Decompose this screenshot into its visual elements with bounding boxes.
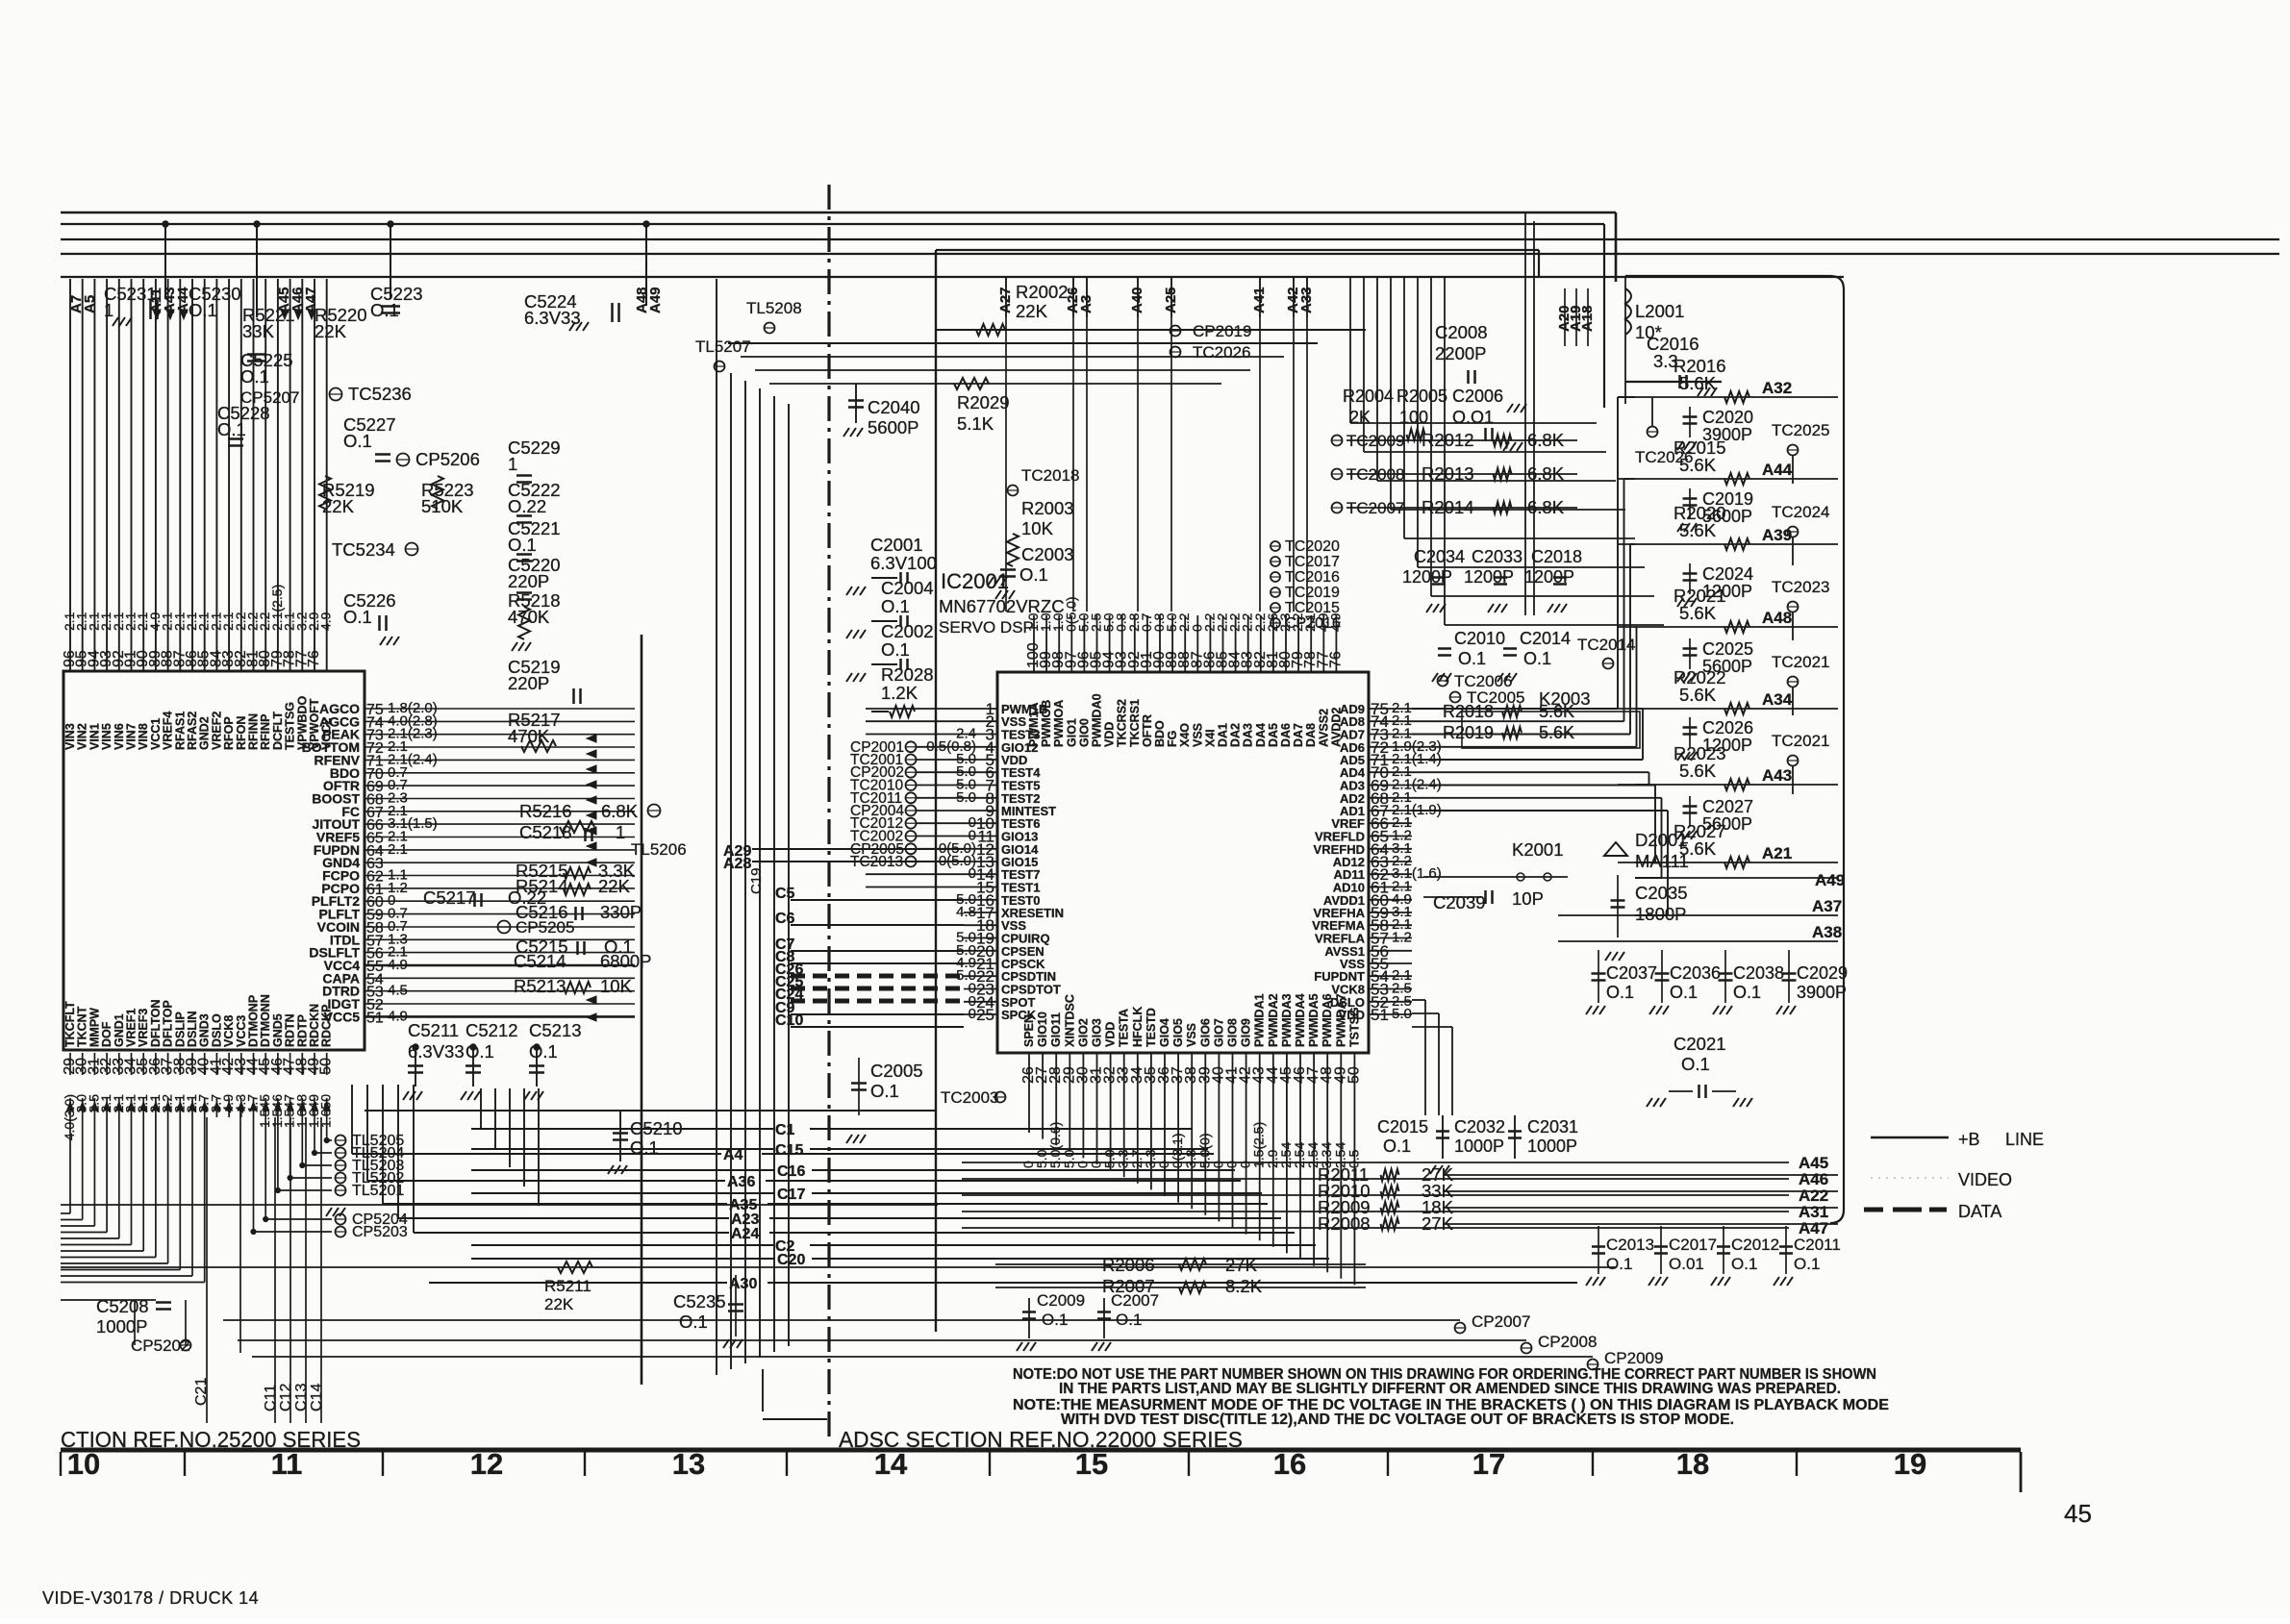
- svg-text:K2001: K2001: [1512, 839, 1564, 860]
- svg-text:TC5234: TC5234: [332, 539, 395, 560]
- svg-text:1000P: 1000P: [96, 1316, 148, 1337]
- svg-text:XINTDSC: XINTDSC: [1063, 994, 1076, 1047]
- svg-text:5600P: 5600P: [1702, 814, 1752, 834]
- svg-text:4.9: 4.9: [1327, 612, 1343, 632]
- svg-text:A49: A49: [1815, 871, 1845, 889]
- svg-text:O.1: O.1: [1794, 1255, 1820, 1273]
- svg-text:TL5208: TL5208: [746, 299, 802, 317]
- svg-text:C2034: C2034: [1414, 547, 1465, 566]
- svg-text:DA4: DA4: [1254, 723, 1268, 747]
- svg-text:O.1: O.1: [1523, 649, 1551, 668]
- svg-text:C14: C14: [309, 1384, 325, 1412]
- svg-text:OFTR: OFTR: [1141, 714, 1154, 747]
- svg-text:LINE: LINE: [2005, 1130, 2044, 1149]
- svg-text:1.650: 1.650: [318, 1094, 334, 1128]
- svg-text:R2003: R2003: [1021, 498, 1074, 518]
- svg-text:4.8: 4.8: [956, 904, 976, 920]
- svg-text:6800P: 6800P: [600, 951, 652, 971]
- svg-text:TC2003: TC2003: [941, 1088, 998, 1107]
- svg-text:GIO11: GIO11: [1049, 1012, 1063, 1047]
- svg-text:C2001: C2001: [870, 535, 923, 555]
- svg-text:CP5203: CP5203: [352, 1224, 408, 1240]
- svg-text:CP5205: CP5205: [516, 918, 574, 937]
- svg-text:GIO6: GIO6: [1198, 1018, 1212, 1047]
- svg-text:IC2001: IC2001: [941, 569, 1009, 593]
- svg-text:C2012: C2012: [1731, 1236, 1779, 1254]
- svg-text:5.6K: 5.6K: [1539, 723, 1574, 742]
- svg-text:GIO9: GIO9: [1240, 1018, 1253, 1047]
- svg-text:PWMDA6: PWMDA6: [1321, 993, 1334, 1047]
- svg-text:PWMDA4: PWMDA4: [1294, 993, 1307, 1047]
- svg-text:X4O: X4O: [1178, 723, 1192, 747]
- svg-text:WITH DVD TEST DISC(TITLE 12),A: WITH DVD TEST DISC(TITLE 12),AND THE DC …: [1061, 1412, 1734, 1428]
- svg-text:O.1: O.1: [1733, 983, 1761, 1002]
- svg-text:5.1K: 5.1K: [957, 413, 994, 434]
- svg-text:R2008: R2008: [1318, 1213, 1371, 1234]
- svg-text:2K: 2K: [1349, 408, 1371, 427]
- svg-text:220P: 220P: [508, 673, 549, 693]
- svg-text:1200P: 1200P: [1524, 567, 1574, 587]
- svg-text:A43: A43: [1762, 766, 1792, 785]
- svg-text:PWMDA2: PWMDA2: [1267, 993, 1280, 1047]
- svg-text:AVSS2: AVSS2: [1317, 709, 1330, 747]
- svg-text:O.O1: O.O1: [1452, 408, 1494, 427]
- svg-text:76: 76: [306, 650, 322, 667]
- svg-text:PWMDA0: PWMDA0: [1091, 693, 1104, 747]
- svg-text:C2027: C2027: [1702, 797, 1753, 816]
- svg-text:A34: A34: [1762, 690, 1793, 709]
- svg-text:A44: A44: [1762, 461, 1793, 479]
- svg-text:O.1: O.1: [1670, 983, 1698, 1002]
- svg-text:GIO8: GIO8: [1226, 1018, 1240, 1047]
- svg-text:GIO2: GIO2: [1076, 1018, 1090, 1047]
- svg-text:GIO4: GIO4: [1158, 1018, 1171, 1047]
- svg-text:C2032: C2032: [1454, 1117, 1505, 1137]
- svg-text:O.1: O.1: [343, 431, 372, 451]
- svg-text:C2026: C2026: [1702, 718, 1753, 737]
- svg-text:A30: A30: [729, 1276, 757, 1292]
- svg-text:TC2005: TC2005: [1467, 688, 1524, 707]
- svg-text:C2029: C2029: [1797, 963, 1848, 983]
- svg-text:O.22: O.22: [508, 496, 546, 516]
- svg-text:R2005: R2005: [1397, 387, 1447, 406]
- svg-text:O.1: O.1: [529, 1041, 558, 1062]
- svg-text:1000P: 1000P: [1454, 1137, 1504, 1156]
- svg-text:TC5236: TC5236: [348, 384, 412, 404]
- svg-text:C2005: C2005: [870, 1061, 923, 1081]
- svg-text:O.1: O.1: [466, 1041, 494, 1062]
- svg-text:2200P: 2200P: [1435, 343, 1487, 363]
- svg-text:C2013: C2013: [1606, 1236, 1654, 1254]
- svg-text:5600P: 5600P: [868, 417, 919, 437]
- svg-text:R5211: R5211: [544, 1277, 591, 1295]
- svg-text:R2002: R2002: [1016, 282, 1069, 302]
- svg-text:100: 100: [1399, 408, 1428, 427]
- svg-text:SPEN: SPEN: [1022, 1014, 1036, 1047]
- svg-text:HFCLK: HFCLK: [1131, 1007, 1145, 1047]
- svg-text:5.0: 5.0: [1392, 1006, 1412, 1022]
- svg-text:C5217: C5217: [423, 887, 476, 908]
- svg-text:TC2026: TC2026: [1193, 343, 1250, 362]
- svg-text:RDCKP: RDCKP: [320, 1005, 334, 1047]
- svg-text:X4I: X4I: [1203, 729, 1217, 747]
- svg-text:R5213: R5213: [514, 976, 566, 996]
- svg-text:TL5201: TL5201: [352, 1183, 404, 1199]
- svg-text:C5211: C5211: [408, 1020, 459, 1040]
- svg-text:45: 45: [2064, 1499, 2092, 1528]
- svg-text:220P: 220P: [508, 571, 549, 591]
- svg-text:C2006: C2006: [1452, 387, 1503, 406]
- svg-text:C2004: C2004: [881, 578, 934, 598]
- svg-text:51: 51: [1371, 1006, 1389, 1024]
- svg-text:FG: FG: [1166, 731, 1179, 747]
- svg-text:PWMDA3: PWMDA3: [1280, 993, 1294, 1047]
- svg-text:CP2019: CP2019: [1193, 322, 1251, 340]
- svg-text:SERVO DSP: SERVO DSP: [939, 618, 1034, 637]
- svg-text:C19: C19: [748, 867, 765, 894]
- svg-text:C2010: C2010: [1454, 629, 1505, 648]
- svg-text:O.1: O.1: [1019, 564, 1048, 585]
- svg-text:VIDEO: VIDEO: [1958, 1170, 2012, 1189]
- svg-text:TC2021: TC2021: [1772, 732, 1829, 750]
- svg-text:C2007: C2007: [1111, 1291, 1159, 1310]
- svg-text:O.1: O.1: [1681, 1054, 1710, 1074]
- svg-text:3900P: 3900P: [1702, 425, 1752, 444]
- svg-text:PWMOB: PWMOB: [1040, 700, 1053, 747]
- svg-text:10K: 10K: [600, 976, 633, 996]
- svg-text:C2021: C2021: [1673, 1034, 1726, 1054]
- svg-text:C16: C16: [777, 1163, 805, 1180]
- svg-text:VIDE-V30178 / DRUCK 14: VIDE-V30178 / DRUCK 14: [42, 1588, 259, 1608]
- svg-text:C15: C15: [775, 1142, 803, 1159]
- svg-text:22K: 22K: [598, 876, 631, 896]
- svg-text:TC2023: TC2023: [1772, 578, 1829, 596]
- svg-text:DA8: DA8: [1304, 723, 1318, 747]
- svg-text:A32: A32: [1762, 379, 1792, 397]
- svg-text:330P: 330P: [600, 902, 642, 922]
- svg-text:TL5207: TL5207: [695, 337, 751, 356]
- svg-text:DA1: DA1: [1217, 723, 1230, 747]
- svg-text:15: 15: [1075, 1447, 1108, 1481]
- svg-text:VDD: VDD: [1103, 722, 1117, 747]
- svg-text:O.1: O.1: [508, 535, 537, 555]
- svg-text:TC2014: TC2014: [1577, 636, 1635, 654]
- svg-text:GIO0: GIO0: [1077, 718, 1091, 747]
- svg-text:22K: 22K: [544, 1295, 574, 1313]
- svg-text:0: 0: [969, 865, 976, 882]
- svg-text:C2002: C2002: [881, 621, 934, 641]
- svg-text:51: 51: [366, 1010, 384, 1026]
- svg-text:O.1: O.1: [343, 607, 372, 627]
- svg-text:O.1: O.1: [679, 1312, 708, 1332]
- svg-text:A49: A49: [647, 287, 664, 313]
- svg-text:14: 14: [874, 1447, 908, 1481]
- svg-text:C2008: C2008: [1435, 322, 1488, 342]
- svg-text:O.1: O.1: [870, 1081, 899, 1101]
- svg-text:C2036: C2036: [1670, 963, 1721, 983]
- svg-text:R2029: R2029: [957, 392, 1010, 412]
- svg-text:C2040: C2040: [868, 397, 920, 417]
- svg-text:GIO5: GIO5: [1171, 1018, 1185, 1047]
- svg-text:C17: C17: [777, 1187, 805, 1203]
- svg-text:C11: C11: [263, 1385, 279, 1412]
- svg-text:O.1: O.1: [370, 300, 399, 320]
- svg-text:1200P: 1200P: [1702, 736, 1752, 755]
- svg-text:O.1: O.1: [881, 639, 910, 660]
- svg-text:DATA: DATA: [1958, 1202, 2001, 1221]
- svg-text:4.9: 4.9: [388, 957, 408, 973]
- svg-text:C20: C20: [777, 1252, 805, 1268]
- svg-text:6.8K: 6.8K: [601, 801, 639, 821]
- svg-text:0: 0: [969, 1006, 976, 1022]
- svg-text:CP2009: CP2009: [1604, 1349, 1663, 1367]
- svg-text:8.2K: 8.2K: [1225, 1276, 1263, 1296]
- svg-text:C2039: C2039: [1433, 892, 1486, 912]
- svg-text:PWMOA: PWMOA: [1052, 700, 1066, 747]
- svg-text:10: 10: [67, 1447, 100, 1481]
- svg-text:2.1: 2.1: [388, 841, 408, 858]
- svg-text:TESTD: TESTD: [1145, 1008, 1158, 1047]
- svg-text:A24: A24: [731, 1226, 759, 1242]
- svg-text:76: 76: [1327, 651, 1344, 668]
- svg-text:CP2008: CP2008: [1538, 1333, 1597, 1351]
- svg-text:4.9: 4.9: [388, 1008, 408, 1024]
- svg-text:C2017: C2017: [1669, 1236, 1717, 1254]
- svg-text:C2038: C2038: [1733, 963, 1784, 983]
- svg-text:16: 16: [1273, 1447, 1306, 1481]
- svg-text:O.1: O.1: [217, 419, 246, 439]
- svg-text:DA2: DA2: [1229, 723, 1243, 747]
- svg-text:19: 19: [1894, 1447, 1926, 1481]
- svg-text:DA3: DA3: [1242, 723, 1255, 747]
- svg-text:C2037: C2037: [1606, 963, 1657, 983]
- svg-text:1.2: 1.2: [1392, 930, 1412, 946]
- svg-text:R2028: R2028: [881, 664, 934, 685]
- svg-text:C5214: C5214: [514, 951, 566, 971]
- svg-text:A48: A48: [1762, 609, 1792, 627]
- svg-text:TL5206: TL5206: [631, 840, 687, 859]
- svg-text:4.9: 4.9: [318, 612, 334, 631]
- svg-text:C12: C12: [278, 1384, 294, 1412]
- svg-text:GIO3: GIO3: [1091, 1018, 1104, 1047]
- svg-text:O.1: O.1: [881, 596, 910, 616]
- svg-text:TC2018: TC2018: [1021, 466, 1079, 485]
- svg-text:11: 11: [271, 1447, 303, 1481]
- svg-text:1800P: 1800P: [1635, 904, 1687, 924]
- svg-text:A4: A4: [723, 1147, 743, 1163]
- svg-text:GIO10: GIO10: [1036, 1012, 1049, 1047]
- svg-text:O.1: O.1: [240, 366, 269, 387]
- svg-text:C2024: C2024: [1702, 564, 1753, 584]
- svg-text:C21: C21: [193, 1378, 210, 1406]
- svg-text:A38: A38: [1812, 923, 1842, 941]
- svg-text:50: 50: [1346, 1066, 1362, 1084]
- svg-text:VSS: VSS: [1191, 723, 1204, 747]
- svg-text:1: 1: [104, 300, 113, 320]
- svg-text:C2025: C2025: [1702, 639, 1753, 659]
- svg-text:22K: 22K: [1016, 301, 1048, 321]
- svg-text:C13: C13: [293, 1384, 310, 1412]
- svg-text:VSS: VSS: [1185, 1023, 1198, 1047]
- svg-text:C5235: C5235: [673, 1291, 726, 1312]
- svg-text:A36: A36: [727, 1174, 755, 1190]
- svg-text:PWM1A: PWM1A: [1027, 702, 1041, 747]
- svg-text:1.2K: 1.2K: [881, 683, 919, 703]
- svg-text:1: 1: [616, 822, 625, 842]
- svg-text:C5212: C5212: [466, 1020, 518, 1040]
- svg-text:5600P: 5600P: [1702, 507, 1752, 526]
- svg-text:GIO7: GIO7: [1212, 1018, 1225, 1047]
- svg-text:C2018: C2018: [1531, 547, 1582, 566]
- svg-text:A5: A5: [82, 295, 98, 313]
- svg-text:C2009: C2009: [1037, 1291, 1085, 1310]
- svg-text:TKCRS2: TKCRS2: [1116, 699, 1129, 747]
- svg-text:R5216: R5216: [519, 801, 572, 821]
- svg-text:C2033: C2033: [1472, 547, 1522, 566]
- svg-text:TESTA: TESTA: [1118, 1009, 1131, 1047]
- svg-text:4.5: 4.5: [388, 983, 408, 999]
- svg-text:IN THE PARTS LIST,AND MAY BE S: IN THE PARTS LIST,AND MAY BE SLIGHTLY DI…: [1059, 1381, 1841, 1397]
- svg-text:C2019: C2019: [1702, 489, 1753, 509]
- svg-text:O.1: O.1: [1383, 1137, 1411, 1156]
- svg-text:TC2025: TC2025: [1772, 421, 1829, 439]
- svg-text:12: 12: [470, 1447, 503, 1481]
- svg-text:TSTSG: TSTSG: [1347, 1007, 1361, 1047]
- svg-text:TC2021: TC2021: [1772, 653, 1829, 671]
- svg-text:C2035: C2035: [1635, 883, 1688, 903]
- svg-text:PWMDA1: PWMDA1: [1253, 993, 1267, 1047]
- svg-text:L2001: L2001: [1635, 301, 1684, 321]
- svg-text:R2004: R2004: [1343, 387, 1394, 406]
- svg-text:C2014: C2014: [1520, 629, 1571, 648]
- svg-text:33K: 33K: [242, 321, 275, 341]
- svg-text:A37: A37: [1812, 897, 1842, 915]
- svg-text:O.1: O.1: [1458, 649, 1486, 668]
- svg-text:CP5206: CP5206: [415, 449, 480, 469]
- svg-text:5600P: 5600P: [1702, 657, 1752, 676]
- svg-text:10K: 10K: [1021, 518, 1054, 538]
- svg-text:17: 17: [1472, 1447, 1505, 1481]
- svg-text:A21: A21: [1762, 844, 1792, 862]
- svg-text:22K: 22K: [315, 321, 347, 341]
- svg-text:GIO1: GIO1: [1065, 718, 1078, 747]
- svg-text:C2031: C2031: [1527, 1117, 1578, 1137]
- svg-text:O.1: O.1: [1606, 983, 1634, 1002]
- svg-text:C1: C1: [775, 1122, 795, 1138]
- svg-text:C5218: C5218: [519, 822, 572, 842]
- svg-text:1000P: 1000P: [1527, 1137, 1577, 1156]
- svg-text:5.6K: 5.6K: [1679, 455, 1717, 475]
- svg-text:VDD: VDD: [1104, 1022, 1118, 1047]
- svg-text:DA6: DA6: [1279, 723, 1293, 747]
- svg-text:DA7: DA7: [1292, 723, 1305, 747]
- svg-text:13: 13: [672, 1447, 705, 1481]
- svg-text:O.01: O.01: [1669, 1255, 1704, 1273]
- svg-text:25: 25: [976, 1006, 994, 1024]
- svg-text:+B: +B: [1958, 1130, 1980, 1149]
- svg-text:C5213: C5213: [529, 1020, 582, 1040]
- svg-text:PWMDA5: PWMDA5: [1307, 993, 1321, 1047]
- svg-text:DA5: DA5: [1267, 723, 1280, 747]
- svg-text:5.6K: 5.6K: [1679, 373, 1717, 393]
- svg-text:C2003: C2003: [1021, 544, 1074, 564]
- svg-text:3900P: 3900P: [1797, 983, 1847, 1002]
- svg-text:6.3V33: 6.3V33: [524, 308, 581, 328]
- svg-text:5.6K: 5.6K: [1679, 685, 1717, 705]
- svg-text:1200P: 1200P: [1702, 582, 1752, 601]
- svg-text:50: 50: [318, 1058, 335, 1075]
- svg-text:C2011: C2011: [1794, 1236, 1841, 1254]
- svg-text:C2020: C2020: [1702, 408, 1753, 427]
- svg-text:TKCRS1: TKCRS1: [1128, 699, 1142, 747]
- svg-text:BDO: BDO: [1153, 720, 1167, 747]
- svg-text:1: 1: [508, 454, 517, 474]
- svg-text:O.1: O.1: [189, 300, 217, 320]
- svg-text:C2015: C2015: [1377, 1117, 1428, 1137]
- svg-text:PWMDA7: PWMDA7: [1334, 993, 1347, 1047]
- svg-text:6.3V100: 6.3V100: [870, 553, 937, 573]
- svg-text:18: 18: [1676, 1447, 1709, 1481]
- svg-text:O.1: O.1: [1606, 1255, 1632, 1273]
- svg-text:TC2024: TC2024: [1772, 503, 1829, 521]
- svg-text:O.1: O.1: [1731, 1255, 1757, 1273]
- svg-text:10P: 10P: [1512, 888, 1544, 909]
- svg-text:CP2007: CP2007: [1472, 1312, 1530, 1331]
- svg-text:5.6K: 5.6K: [1679, 761, 1717, 781]
- svg-text:R2019: R2019: [1443, 723, 1494, 742]
